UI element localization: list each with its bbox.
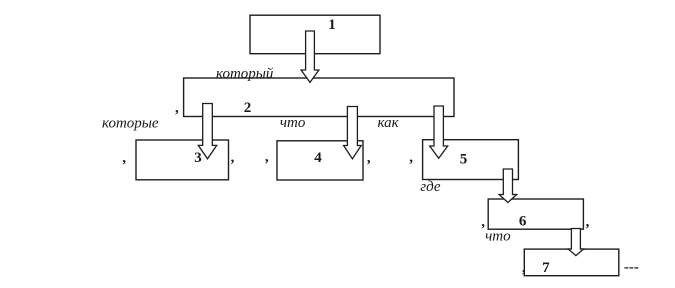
svg-text:которые: которые bbox=[102, 115, 159, 131]
svg-text:5: 5 bbox=[460, 152, 468, 168]
svg-text:,: , bbox=[231, 150, 235, 166]
svg-text:6: 6 bbox=[519, 214, 527, 230]
svg-text:7: 7 bbox=[542, 260, 550, 276]
svg-text:,: , bbox=[522, 260, 526, 276]
svg-text:который: который bbox=[216, 66, 274, 82]
svg-text:---: --- bbox=[624, 260, 639, 276]
svg-text:где: где bbox=[420, 179, 441, 195]
svg-text:3: 3 bbox=[194, 150, 202, 166]
svg-text:1: 1 bbox=[328, 17, 336, 33]
svg-text:,: , bbox=[409, 149, 413, 165]
svg-text:,: , bbox=[586, 214, 590, 230]
svg-text:,: , bbox=[175, 100, 179, 116]
svg-text:,: , bbox=[265, 149, 269, 165]
svg-text:,: , bbox=[122, 150, 126, 166]
svg-text:что: что bbox=[280, 115, 306, 131]
svg-text:,: , bbox=[481, 214, 485, 230]
svg-text:,: , bbox=[367, 150, 371, 166]
svg-text:что: что bbox=[485, 229, 511, 245]
svg-text:как: как bbox=[378, 115, 400, 131]
svg-text:4: 4 bbox=[314, 150, 322, 166]
svg-text:2: 2 bbox=[244, 100, 252, 116]
